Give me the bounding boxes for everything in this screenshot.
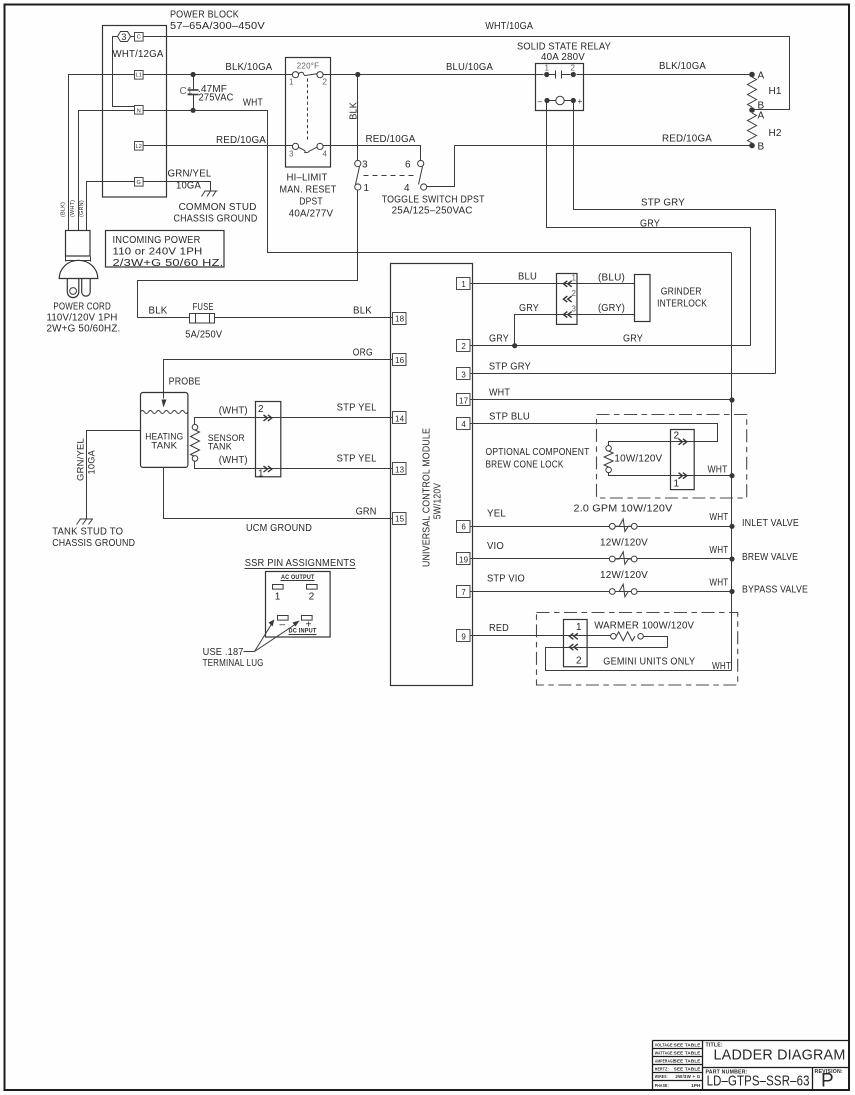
svg-text:6: 6 <box>405 160 411 171</box>
svg-text:WHT: WHT <box>709 545 728 556</box>
svg-text:UCM GROUND: UCM GROUND <box>246 523 312 534</box>
svg-text:1: 1 <box>461 280 466 289</box>
svg-text:L1: L1 <box>136 73 143 79</box>
svg-text:FUSE: FUSE <box>193 302 214 313</box>
svg-text:WIRES:: WIRES: <box>655 1074 668 1079</box>
svg-text:(BLK): (BLK) <box>61 202 67 217</box>
svg-text:TANK: TANK <box>151 441 177 451</box>
svg-text:BLK/10GA: BLK/10GA <box>659 61 706 72</box>
svg-text:RED/10GA: RED/10GA <box>366 134 416 145</box>
svg-text:C1: C1 <box>180 86 193 97</box>
svg-text:2/3W+G 50/60 HZ.: 2/3W+G 50/60 HZ. <box>113 258 224 269</box>
svg-text:17: 17 <box>459 396 469 405</box>
svg-text:LADDER DIAGRAM: LADDER DIAGRAM <box>714 1047 846 1064</box>
svg-text:H2: H2 <box>769 128 782 139</box>
svg-text:9: 9 <box>461 632 466 641</box>
svg-text:PROBE: PROBE <box>169 377 201 388</box>
svg-text:UNIVERSAL CONTROL MODULE: UNIVERSAL CONTROL MODULE <box>422 428 433 567</box>
svg-text:WHT: WHT <box>489 388 510 399</box>
svg-text:DC INPUT: DC INPUT <box>289 628 317 635</box>
svg-text:STP YEL: STP YEL <box>337 403 377 414</box>
svg-text:TERMINAL LUG: TERMINAL LUG <box>203 658 264 669</box>
svg-text:WHT: WHT <box>709 578 728 589</box>
svg-text:1: 1 <box>674 479 680 490</box>
svg-text:TOGGLE SWITCH DPST: TOGGLE SWITCH DPST <box>382 195 485 206</box>
svg-text:57–65A/300–450V: 57–65A/300–450V <box>170 21 265 32</box>
svg-text:SEE TABLE: SEE TABLE <box>674 1050 701 1055</box>
svg-text:12W/120V: 12W/120V <box>600 570 648 581</box>
svg-text:10GA: 10GA <box>176 181 201 192</box>
svg-text:2: 2 <box>309 592 315 603</box>
svg-text:BLK/10GA: BLK/10GA <box>225 62 272 73</box>
svg-text:VIO: VIO <box>487 541 504 552</box>
svg-text:–: – <box>538 97 543 106</box>
svg-text:12W/120V: 12W/120V <box>600 538 648 549</box>
svg-text:2W/3W + G: 2W/3W + G <box>675 1074 700 1079</box>
svg-text:110 or 240V 1PH: 110 or 240V 1PH <box>113 247 203 258</box>
svg-text:BLU/10GA: BLU/10GA <box>446 62 493 73</box>
svg-text:1: 1 <box>576 622 582 633</box>
svg-text:CHASSIS GROUND: CHASSIS GROUND <box>174 214 258 225</box>
svg-text:40A 280V: 40A 280V <box>541 52 585 63</box>
svg-text:BLK: BLK <box>149 306 168 317</box>
svg-text:AC OUTPUT: AC OUTPUT <box>281 574 315 581</box>
svg-text:GEMINI UNITS ONLY: GEMINI UNITS ONLY <box>603 657 695 668</box>
svg-text:(WHT): (WHT) <box>219 455 248 466</box>
svg-text:(WHT): (WHT) <box>219 406 248 417</box>
svg-text:3: 3 <box>121 32 126 42</box>
svg-text:2: 2 <box>258 404 264 415</box>
svg-text:(BLU): (BLU) <box>598 273 625 284</box>
svg-text:2: 2 <box>571 64 576 73</box>
svg-text:BREW VALVE: BREW VALVE <box>742 552 798 563</box>
svg-text:INLET VALVE: INLET VALVE <box>742 518 799 529</box>
svg-text:LD–GTPS–SSR–63: LD–GTPS–SSR–63 <box>707 1074 810 1090</box>
svg-text:25A/125–250VAC: 25A/125–250VAC <box>392 206 473 217</box>
svg-text:WHT/10GA: WHT/10GA <box>485 21 533 32</box>
svg-text:H1: H1 <box>769 86 782 97</box>
svg-text:2.0 GPM 10W/120V: 2.0 GPM 10W/120V <box>574 504 673 515</box>
svg-text:HERTZ:: HERTZ: <box>655 1066 669 1071</box>
svg-text:10GA: 10GA <box>87 450 97 475</box>
svg-text:3: 3 <box>461 370 466 379</box>
svg-text:VOLTAGE:: VOLTAGE: <box>655 1042 674 1047</box>
svg-text:275VAC: 275VAC <box>199 93 234 104</box>
svg-text:1: 1 <box>289 78 294 87</box>
svg-text:PHASE:: PHASE: <box>655 1083 669 1088</box>
svg-text:5A/250V: 5A/250V <box>185 330 222 341</box>
svg-text:7: 7 <box>461 588 466 597</box>
svg-text:GRY: GRY <box>640 219 660 230</box>
svg-text:BLU: BLU <box>518 272 537 283</box>
svg-text:B: B <box>758 142 765 153</box>
svg-text:13: 13 <box>395 465 405 474</box>
svg-text:N: N <box>137 109 141 115</box>
svg-text:GRN/YEL: GRN/YEL <box>76 438 86 481</box>
svg-text:4: 4 <box>323 150 328 159</box>
svg-text:19: 19 <box>459 555 469 564</box>
svg-text:STP YEL: STP YEL <box>337 454 377 465</box>
svg-text:15: 15 <box>395 515 405 524</box>
svg-text:P: P <box>821 1071 834 1092</box>
svg-text:POWER BLOCK: POWER BLOCK <box>170 10 239 21</box>
svg-text:220°F: 220°F <box>297 62 319 71</box>
svg-text:5W/120V: 5W/120V <box>433 483 444 520</box>
svg-text:INTERLOCK: INTERLOCK <box>657 299 707 310</box>
svg-text:(GRN): (GRN) <box>79 200 85 217</box>
svg-text:40A/277V: 40A/277V <box>289 209 334 220</box>
svg-text:G: G <box>137 180 141 186</box>
svg-text:WATTAGE:: WATTAGE: <box>655 1050 674 1055</box>
svg-text:14: 14 <box>395 414 405 423</box>
svg-text:18: 18 <box>395 315 405 324</box>
svg-text:1: 1 <box>275 592 281 603</box>
svg-text:WHT: WHT <box>243 98 263 109</box>
svg-text:16: 16 <box>395 356 405 365</box>
svg-text:L2: L2 <box>136 144 143 150</box>
svg-text:RED/10GA: RED/10GA <box>216 135 266 146</box>
svg-text:TANK: TANK <box>208 441 232 451</box>
svg-text:COMMON STUD: COMMON STUD <box>179 202 257 213</box>
svg-text:RED: RED <box>489 623 509 634</box>
svg-text:SOLID STATE RELAY: SOLID STATE RELAY <box>517 42 611 53</box>
svg-text:(GRY): (GRY) <box>598 303 625 314</box>
svg-text:2: 2 <box>461 342 466 351</box>
svg-text:GRY: GRY <box>489 334 509 345</box>
svg-text:–: – <box>280 620 286 631</box>
svg-text:GRN: GRN <box>356 507 377 518</box>
svg-text:2: 2 <box>674 431 680 442</box>
svg-text:2: 2 <box>576 656 582 667</box>
svg-text:WHT: WHT <box>709 512 728 523</box>
svg-text:HI–LIMIT: HI–LIMIT <box>287 173 328 184</box>
svg-text:GRN/YEL: GRN/YEL <box>168 169 212 180</box>
svg-text:GRY: GRY <box>519 303 539 314</box>
svg-text:SEE TABLE: SEE TABLE <box>674 1042 701 1047</box>
svg-text:POWER CORD: POWER CORD <box>53 302 111 313</box>
svg-text:+: + <box>578 97 583 106</box>
svg-text:SEE TABLE: SEE TABLE <box>674 1066 701 1071</box>
svg-text:TANK STUD TO: TANK STUD TO <box>52 527 123 538</box>
svg-text:USE .187: USE .187 <box>203 647 244 658</box>
svg-text:3: 3 <box>362 160 368 171</box>
svg-text:SSR PIN ASSIGNMENTS: SSR PIN ASSIGNMENTS <box>245 558 356 569</box>
svg-text:BLK: BLK <box>349 102 360 120</box>
svg-text:1: 1 <box>545 64 550 73</box>
svg-text:STP GRY: STP GRY <box>641 198 685 209</box>
svg-text:YEL: YEL <box>487 509 506 520</box>
svg-text:WHT: WHT <box>712 661 731 672</box>
svg-text:CHASSIS GROUND: CHASSIS GROUND <box>52 538 135 549</box>
svg-text:STP GRY: STP GRY <box>489 362 531 373</box>
svg-text:WHT: WHT <box>708 465 728 476</box>
svg-text:WARMER 100W/120V: WARMER 100W/120V <box>594 621 694 632</box>
svg-text:1PH: 1PH <box>691 1083 700 1088</box>
svg-text:BYPASS VALVE: BYPASS VALVE <box>742 585 808 596</box>
svg-text:OPTIONAL COMPONENT: OPTIONAL COMPONENT <box>486 447 590 458</box>
svg-text:DPST: DPST <box>299 197 323 208</box>
svg-text:INCOMING POWER: INCOMING POWER <box>113 235 201 246</box>
svg-text:MAN. RESET: MAN. RESET <box>280 185 337 196</box>
svg-text:BLK: BLK <box>353 306 372 317</box>
svg-text:ORG: ORG <box>353 348 373 359</box>
svg-text:2: 2 <box>323 78 328 87</box>
svg-text:GRY: GRY <box>623 334 643 345</box>
svg-text:(WHT): (WHT) <box>70 200 76 217</box>
svg-text:C: C <box>137 35 141 41</box>
svg-text:SEE TABLE: SEE TABLE <box>674 1058 701 1063</box>
svg-text:A: A <box>758 71 765 82</box>
svg-text:BREW CONE LOCK: BREW CONE LOCK <box>486 460 564 471</box>
svg-text:GRINDER: GRINDER <box>661 287 702 298</box>
svg-text:STP BLU: STP BLU <box>489 412 530 423</box>
svg-text:WHT/12GA: WHT/12GA <box>113 49 164 60</box>
svg-text:1: 1 <box>572 274 577 283</box>
svg-text:1: 1 <box>258 469 264 480</box>
svg-text:110V/120V 1PH: 110V/120V 1PH <box>47 313 118 324</box>
svg-text:STP VIO: STP VIO <box>487 574 525 585</box>
svg-text:3: 3 <box>572 305 577 314</box>
svg-text:2W+G 50/60HZ.: 2W+G 50/60HZ. <box>47 324 121 335</box>
svg-text:A: A <box>758 111 765 122</box>
svg-text:10W/120V: 10W/120V <box>614 454 662 465</box>
svg-text:3: 3 <box>289 150 294 159</box>
svg-text:2: 2 <box>572 289 577 298</box>
svg-text:6: 6 <box>461 523 466 532</box>
svg-text:RED/10GA: RED/10GA <box>662 134 712 145</box>
svg-text:4: 4 <box>461 420 466 429</box>
svg-text:1: 1 <box>364 183 370 194</box>
svg-text:4: 4 <box>404 183 410 194</box>
